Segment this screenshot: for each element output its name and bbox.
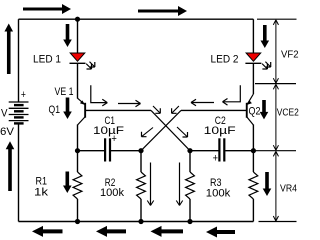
flow arrow down at LED1	[63, 24, 72, 47]
label R2 value 100k	[100, 187, 124, 199]
resistor R4	[249, 172, 258, 199]
label VE 1	[55, 86, 74, 98]
svg-text:LED 1: LED 1	[33, 53, 61, 65]
node D Q2 collector / C2 / R4	[251, 148, 256, 153]
label C1	[105, 115, 116, 127]
label VR4	[280, 184, 297, 195]
svg-text:1k: 1k	[34, 187, 49, 199]
wire Q1 collector down	[77, 125, 79, 151]
svg-text:10µF: 10µF	[93, 125, 124, 137]
node B C1 / R2 / cross	[138, 148, 143, 153]
wire R1 top lead	[77, 151, 79, 172]
svg-text:VF2: VF2	[281, 50, 299, 61]
svg-text:6V: 6V	[0, 126, 15, 138]
svg-text:LED 2: LED 2	[211, 53, 239, 65]
wire C2 to node D	[225, 150, 253, 152]
flow arrow down left of R2	[147, 163, 153, 206]
wire LED2 branch from rail	[252, 19, 254, 53]
C2 plus label	[213, 152, 218, 164]
wire LED2 cathode to Q2 emitter	[252, 64, 254, 94]
flow arrow up left-top	[4, 24, 13, 75]
label VF2	[281, 50, 299, 61]
label VCE2	[277, 108, 299, 119]
svg-text:100k: 100k	[100, 187, 124, 199]
svg-text:+: +	[213, 152, 218, 164]
LED LED2	[245, 53, 261, 63]
VR4 dimension arrow	[273, 151, 278, 221]
label LED 1	[33, 53, 61, 65]
svg-text:Q2: Q2	[249, 106, 261, 118]
flow arrow left on Q2 base wire	[191, 99, 214, 106]
node R3 bottom rail	[187, 219, 192, 224]
LED1 light arrows	[86, 62, 95, 69]
label R3 value 100k	[206, 188, 231, 200]
label C2 value 10uF	[204, 125, 236, 137]
wire Q1 base	[86, 109, 151, 111]
wire R4 bottom lead	[252, 199, 254, 222]
VF2 dimension arrow	[273, 20, 278, 83]
flow arrow left bottom-4	[206, 227, 235, 238]
wire R4 top lead	[252, 151, 254, 172]
flow arrow diag lower-right of cross	[177, 127, 188, 137]
wire R3 top lead	[189, 151, 191, 172]
node A Q1 collector / C1 / R1	[75, 148, 80, 153]
wire cross-couple Q1 base to node C	[151, 110, 190, 150]
svg-text:V: V	[1, 107, 8, 119]
label R1 value 1k	[34, 187, 49, 199]
flow arrow up left-bottom	[6, 141, 15, 191]
wire R1 bottom lead	[77, 199, 79, 222]
label Q1	[49, 104, 61, 116]
wire R2 bottom lead	[140, 199, 142, 222]
wire node A to C1	[78, 150, 105, 152]
label R3	[210, 177, 222, 189]
label 6V	[0, 126, 15, 138]
label R1	[36, 176, 48, 188]
svg-text:Q1: Q1	[49, 104, 61, 116]
battery plus label	[21, 89, 26, 101]
capacitor C1	[104, 138, 111, 161]
wire R3 bottom lead	[189, 199, 191, 222]
svg-text:+: +	[21, 89, 26, 101]
wire Q2 collector down	[252, 125, 254, 151]
svg-text:100k: 100k	[206, 188, 231, 200]
flow arrow down left of R3	[176, 163, 182, 206]
svg-text:VE 1: VE 1	[55, 86, 74, 98]
resistor R2 100k	[137, 172, 146, 199]
wire C1 to node B	[111, 150, 141, 152]
battery V 6V	[9, 102, 29, 125]
svg-text:VCE2: VCE2	[277, 108, 299, 119]
VR4 middle tick (node D extension)	[253, 150, 296, 152]
wire cross-couple Q2 base to node B	[141, 110, 181, 150]
wire top supply rail	[19, 18, 254, 20]
wire LED1 anode	[77, 19, 79, 53]
transistor Q2	[246, 94, 254, 125]
flow arrow down at R1	[63, 172, 72, 194]
flow arrow down at LED2	[261, 25, 270, 48]
flow arrow down at Q2	[260, 100, 269, 119]
VCE2 dimension arrow	[273, 84, 278, 150]
label C2	[215, 115, 226, 127]
label R2	[105, 177, 116, 189]
C1 plus label	[111, 133, 117, 145]
flow elbow arrow at Q1 base	[91, 85, 108, 106]
flow arrow down at R4	[263, 172, 272, 196]
node R2 bottom rail	[138, 219, 143, 224]
VF2 top tick (rail extension)	[257, 18, 297, 20]
wire bottom return rail	[19, 221, 254, 223]
label C1 value 10uF	[93, 125, 124, 137]
capacitor C2	[218, 138, 225, 161]
label Q2	[249, 106, 261, 118]
flow arrow left bottom-1	[32, 226, 63, 237]
label LED 2	[211, 53, 239, 65]
node R1 bottom rail	[75, 219, 80, 224]
LED LED1	[70, 53, 86, 63]
flow arrow diag lower-left of cross	[142, 128, 154, 137]
wire R2 top lead	[140, 151, 142, 172]
flow arrow left bottom-2	[96, 226, 126, 237]
flow arrow right top-left	[23, 4, 71, 14]
flow arrow right on Q1 base wire	[118, 100, 141, 107]
svg-text:10µF: 10µF	[204, 125, 236, 137]
label V	[1, 107, 8, 119]
VF2 bottom tick	[255, 83, 296, 85]
svg-text:VR4: VR4	[280, 184, 297, 195]
resistor R3 100k	[186, 172, 195, 199]
wire Q2 base	[181, 109, 246, 111]
wire left rail lower (battery -)	[18, 124, 20, 222]
wire LED1 cathode to Q1 emitter	[77, 64, 79, 99]
flow arrow down at Q1	[63, 98, 72, 120]
flow arrow diag upper-left of cross	[153, 106, 160, 113]
wire node C to C2	[190, 150, 219, 152]
node top rail LED1 branch	[75, 17, 80, 22]
LED2 light arrows	[262, 62, 271, 69]
flow elbow arrow at Q2 base	[223, 85, 241, 105]
wire left rail upper (battery +)	[18, 19, 20, 102]
resistor R1 1k	[73, 172, 82, 199]
node C C2 / R3 / cross	[187, 148, 192, 153]
flow arrow right top-mid	[138, 6, 187, 16]
VR4 bottom tick	[259, 221, 297, 223]
flow arrow diag upper-right of cross	[172, 106, 179, 113]
flow arrow left bottom-3	[151, 226, 184, 237]
transistor Q1	[78, 98, 87, 125]
